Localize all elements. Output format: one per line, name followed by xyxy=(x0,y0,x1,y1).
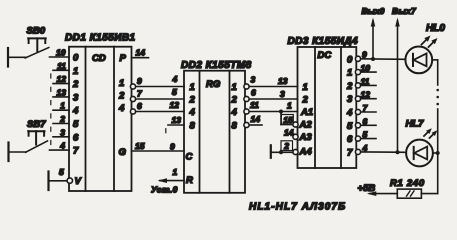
svg-text:1: 1 xyxy=(232,82,237,93)
DD2 output 8 pin 14 stub xyxy=(244,114,262,128)
DD1 output P pin 14 stub xyxy=(120,48,149,65)
junction node Vykh7 xyxy=(396,150,400,154)
DD2 R pin 1 input with arrow Ust.0 xyxy=(151,167,184,194)
svg-text:R1 240: R1 240 xyxy=(390,178,425,189)
switch SB0 xyxy=(8,26,49,67)
IC DD2 K155TM8 body xyxy=(181,60,252,193)
svg-text:1: 1 xyxy=(73,66,78,77)
svg-text:11: 11 xyxy=(57,61,66,71)
svg-text:+5В: +5В xyxy=(358,183,376,194)
DD2 internal labels xyxy=(186,82,238,186)
svg-text:SB0: SB0 xyxy=(27,26,46,37)
DD1 pin 5 V input with bubble and common-rail bar xyxy=(49,167,82,190)
DD3 output 7 pin 4 wire to HL7 xyxy=(355,149,405,154)
switch SB7 xyxy=(9,119,48,161)
svg-text:5: 5 xyxy=(59,167,64,177)
DD2 input 8 pin 13 stub xyxy=(166,125,184,133)
DD1 left pin stubs 1-6 with break ticks xyxy=(51,70,69,144)
svg-text:11: 11 xyxy=(361,76,370,86)
svg-text:2: 2 xyxy=(346,81,353,92)
svg-text:13: 13 xyxy=(172,115,182,125)
DD3 A2 input bubble xyxy=(293,122,298,127)
junction node on A1 wire xyxy=(279,110,283,114)
wire resistor to rail xyxy=(421,193,437,195)
svg-text:HL0: HL0 xyxy=(426,23,445,34)
wire junction down to DD3 A2 with boxed pin label 15 xyxy=(281,112,293,126)
DD1 output 4 pin 6 wire to DD2 xyxy=(118,101,184,114)
svg-text:1: 1 xyxy=(347,68,352,79)
junction node HL7 anode xyxy=(436,151,440,155)
svg-text:5: 5 xyxy=(172,87,177,97)
svg-text:4: 4 xyxy=(231,107,238,118)
DD2 output 4 pin 11 wire to DD3 A1 xyxy=(244,100,298,114)
junction node Vykh0 xyxy=(371,57,375,61)
svg-text:DD1 К155ИВ1: DD1 К155ИВ1 xyxy=(65,33,136,44)
svg-text:1: 1 xyxy=(60,101,65,111)
svg-text:2: 2 xyxy=(231,95,238,106)
svg-text:HL1-HL7 АЛ307Б: HL1-HL7 АЛ307Б xyxy=(249,202,346,213)
svg-text:А1: А1 xyxy=(300,107,313,118)
svg-text:15: 15 xyxy=(283,115,293,125)
svg-text:R: R xyxy=(186,175,193,186)
DD3 output stubs pins 10,11,12,7,6,5 xyxy=(355,70,376,142)
svg-text:12: 12 xyxy=(170,100,180,110)
anode supply rail vertical with dotted continuation xyxy=(436,60,439,194)
svg-text:12: 12 xyxy=(361,90,371,100)
DD1 output 2 pin 7 wire to DD2 xyxy=(118,89,184,102)
svg-text:3: 3 xyxy=(280,89,285,99)
svg-text:1: 1 xyxy=(119,78,124,89)
DD3 output pin number labels xyxy=(361,50,371,153)
svg-text:14: 14 xyxy=(136,48,146,58)
DD1 G pin 15 wire to DD2 C pin 9 xyxy=(119,141,185,158)
LED HL0 xyxy=(405,23,445,73)
DD1 left pin number labels xyxy=(56,48,66,151)
svg-text:8: 8 xyxy=(190,121,196,132)
svg-text:Вых7: Вых7 xyxy=(392,6,417,16)
DD3 internal left labels xyxy=(299,82,314,158)
svg-text:6: 6 xyxy=(363,116,368,126)
svg-text:9: 9 xyxy=(137,76,142,86)
svg-text:7: 7 xyxy=(347,147,353,158)
svg-text:4: 4 xyxy=(59,141,65,151)
junction node on ground wire xyxy=(279,150,283,154)
svg-text:13: 13 xyxy=(57,87,67,97)
DD1 output 1 pin 9 wire to DD2 xyxy=(119,76,184,89)
svg-text:Вых0: Вых0 xyxy=(362,6,385,16)
svg-text:8: 8 xyxy=(232,121,238,132)
svg-text:7: 7 xyxy=(73,146,79,157)
svg-text:5: 5 xyxy=(347,121,353,132)
svg-text:11: 11 xyxy=(250,100,259,110)
svg-text:3: 3 xyxy=(251,75,256,85)
svg-text:4: 4 xyxy=(118,103,125,114)
IC DD3 K155ID4 body xyxy=(288,36,359,168)
svg-text:DD2 К155ТМ8: DD2 К155ТМ8 xyxy=(181,60,252,71)
DD2 left pin number labels xyxy=(170,74,182,125)
svg-text:2: 2 xyxy=(59,114,65,124)
IC DD1 K155IV1 body xyxy=(65,33,136,192)
svg-text:9: 9 xyxy=(170,142,175,152)
svg-text:RG: RG xyxy=(206,79,221,90)
svg-text:15: 15 xyxy=(135,141,145,151)
svg-text:4: 4 xyxy=(72,106,79,117)
svg-text:DD3 К155ИД4: DD3 К155ИД4 xyxy=(288,36,359,47)
svg-text:10: 10 xyxy=(361,63,371,73)
LED HL7 xyxy=(406,119,438,167)
svg-text:CD: CD xyxy=(92,53,106,64)
svg-text:SB7: SB7 xyxy=(27,119,46,130)
svg-text:А2: А2 xyxy=(299,120,313,131)
svg-text:Уст.0: Уст.0 xyxy=(151,184,178,194)
svg-text:2: 2 xyxy=(283,141,289,151)
wire resistor to +5V with arrow xyxy=(358,183,398,196)
svg-text:14: 14 xyxy=(251,114,261,124)
svg-text:G: G xyxy=(119,147,127,158)
svg-text:4: 4 xyxy=(189,107,196,118)
svg-text:DC: DC xyxy=(318,50,332,61)
wire SB0 to DD1 pin 10 xyxy=(50,56,70,58)
svg-text:6: 6 xyxy=(73,132,79,143)
svg-text:12: 12 xyxy=(57,74,67,84)
svg-text:3: 3 xyxy=(73,92,79,103)
svg-text:2: 2 xyxy=(302,95,309,106)
svg-text:6: 6 xyxy=(251,88,256,98)
svg-text:1: 1 xyxy=(173,167,178,177)
svg-text:3: 3 xyxy=(60,127,65,137)
wire SB7 to DD1 pin 4 xyxy=(50,149,70,151)
DD1 internal input labels 0-7 xyxy=(72,53,79,157)
svg-text:1: 1 xyxy=(287,101,292,111)
svg-text:2: 2 xyxy=(72,79,79,90)
svg-text:HL7: HL7 xyxy=(406,119,425,130)
DD2 output 1 pin 3 wire to DD3 xyxy=(244,75,298,90)
DD3 A4 boxed pin label 2 and bubble xyxy=(281,141,298,155)
svg-text:1: 1 xyxy=(303,82,308,93)
ground common-rail bar to A4 xyxy=(271,145,293,158)
svg-text:0: 0 xyxy=(347,54,353,65)
DD3 internal right labels 0-7 xyxy=(346,54,353,158)
svg-text:10: 10 xyxy=(56,48,66,58)
output arrow Vykh7 xyxy=(392,6,417,152)
svg-text:V: V xyxy=(75,176,82,187)
svg-text:А3: А3 xyxy=(299,132,313,143)
DD3 output 0 pin 9 wire to HL0 xyxy=(355,56,405,61)
output arrow Vykh0 xyxy=(362,6,385,59)
svg-text:3: 3 xyxy=(347,94,353,105)
svg-text:4: 4 xyxy=(346,108,353,119)
svg-text:6: 6 xyxy=(347,134,353,145)
DD2 output 2 pin 6 wire to DD3 xyxy=(244,88,298,102)
svg-text:2: 2 xyxy=(189,95,196,106)
svg-text:2: 2 xyxy=(118,91,125,102)
svg-text:6: 6 xyxy=(137,101,142,111)
svg-text:5: 5 xyxy=(73,119,79,130)
svg-text:C: C xyxy=(186,152,193,163)
svg-text:0: 0 xyxy=(73,53,79,64)
svg-text:5: 5 xyxy=(363,130,368,140)
svg-text:А4: А4 xyxy=(299,147,313,158)
DD3 A3 pin 14 label and bubble xyxy=(284,128,298,140)
svg-text:13: 13 xyxy=(278,76,288,86)
svg-text:4: 4 xyxy=(172,74,178,84)
svg-text:P: P xyxy=(120,53,127,64)
svg-text:1: 1 xyxy=(190,82,195,93)
resistor R1 240 xyxy=(390,178,425,198)
